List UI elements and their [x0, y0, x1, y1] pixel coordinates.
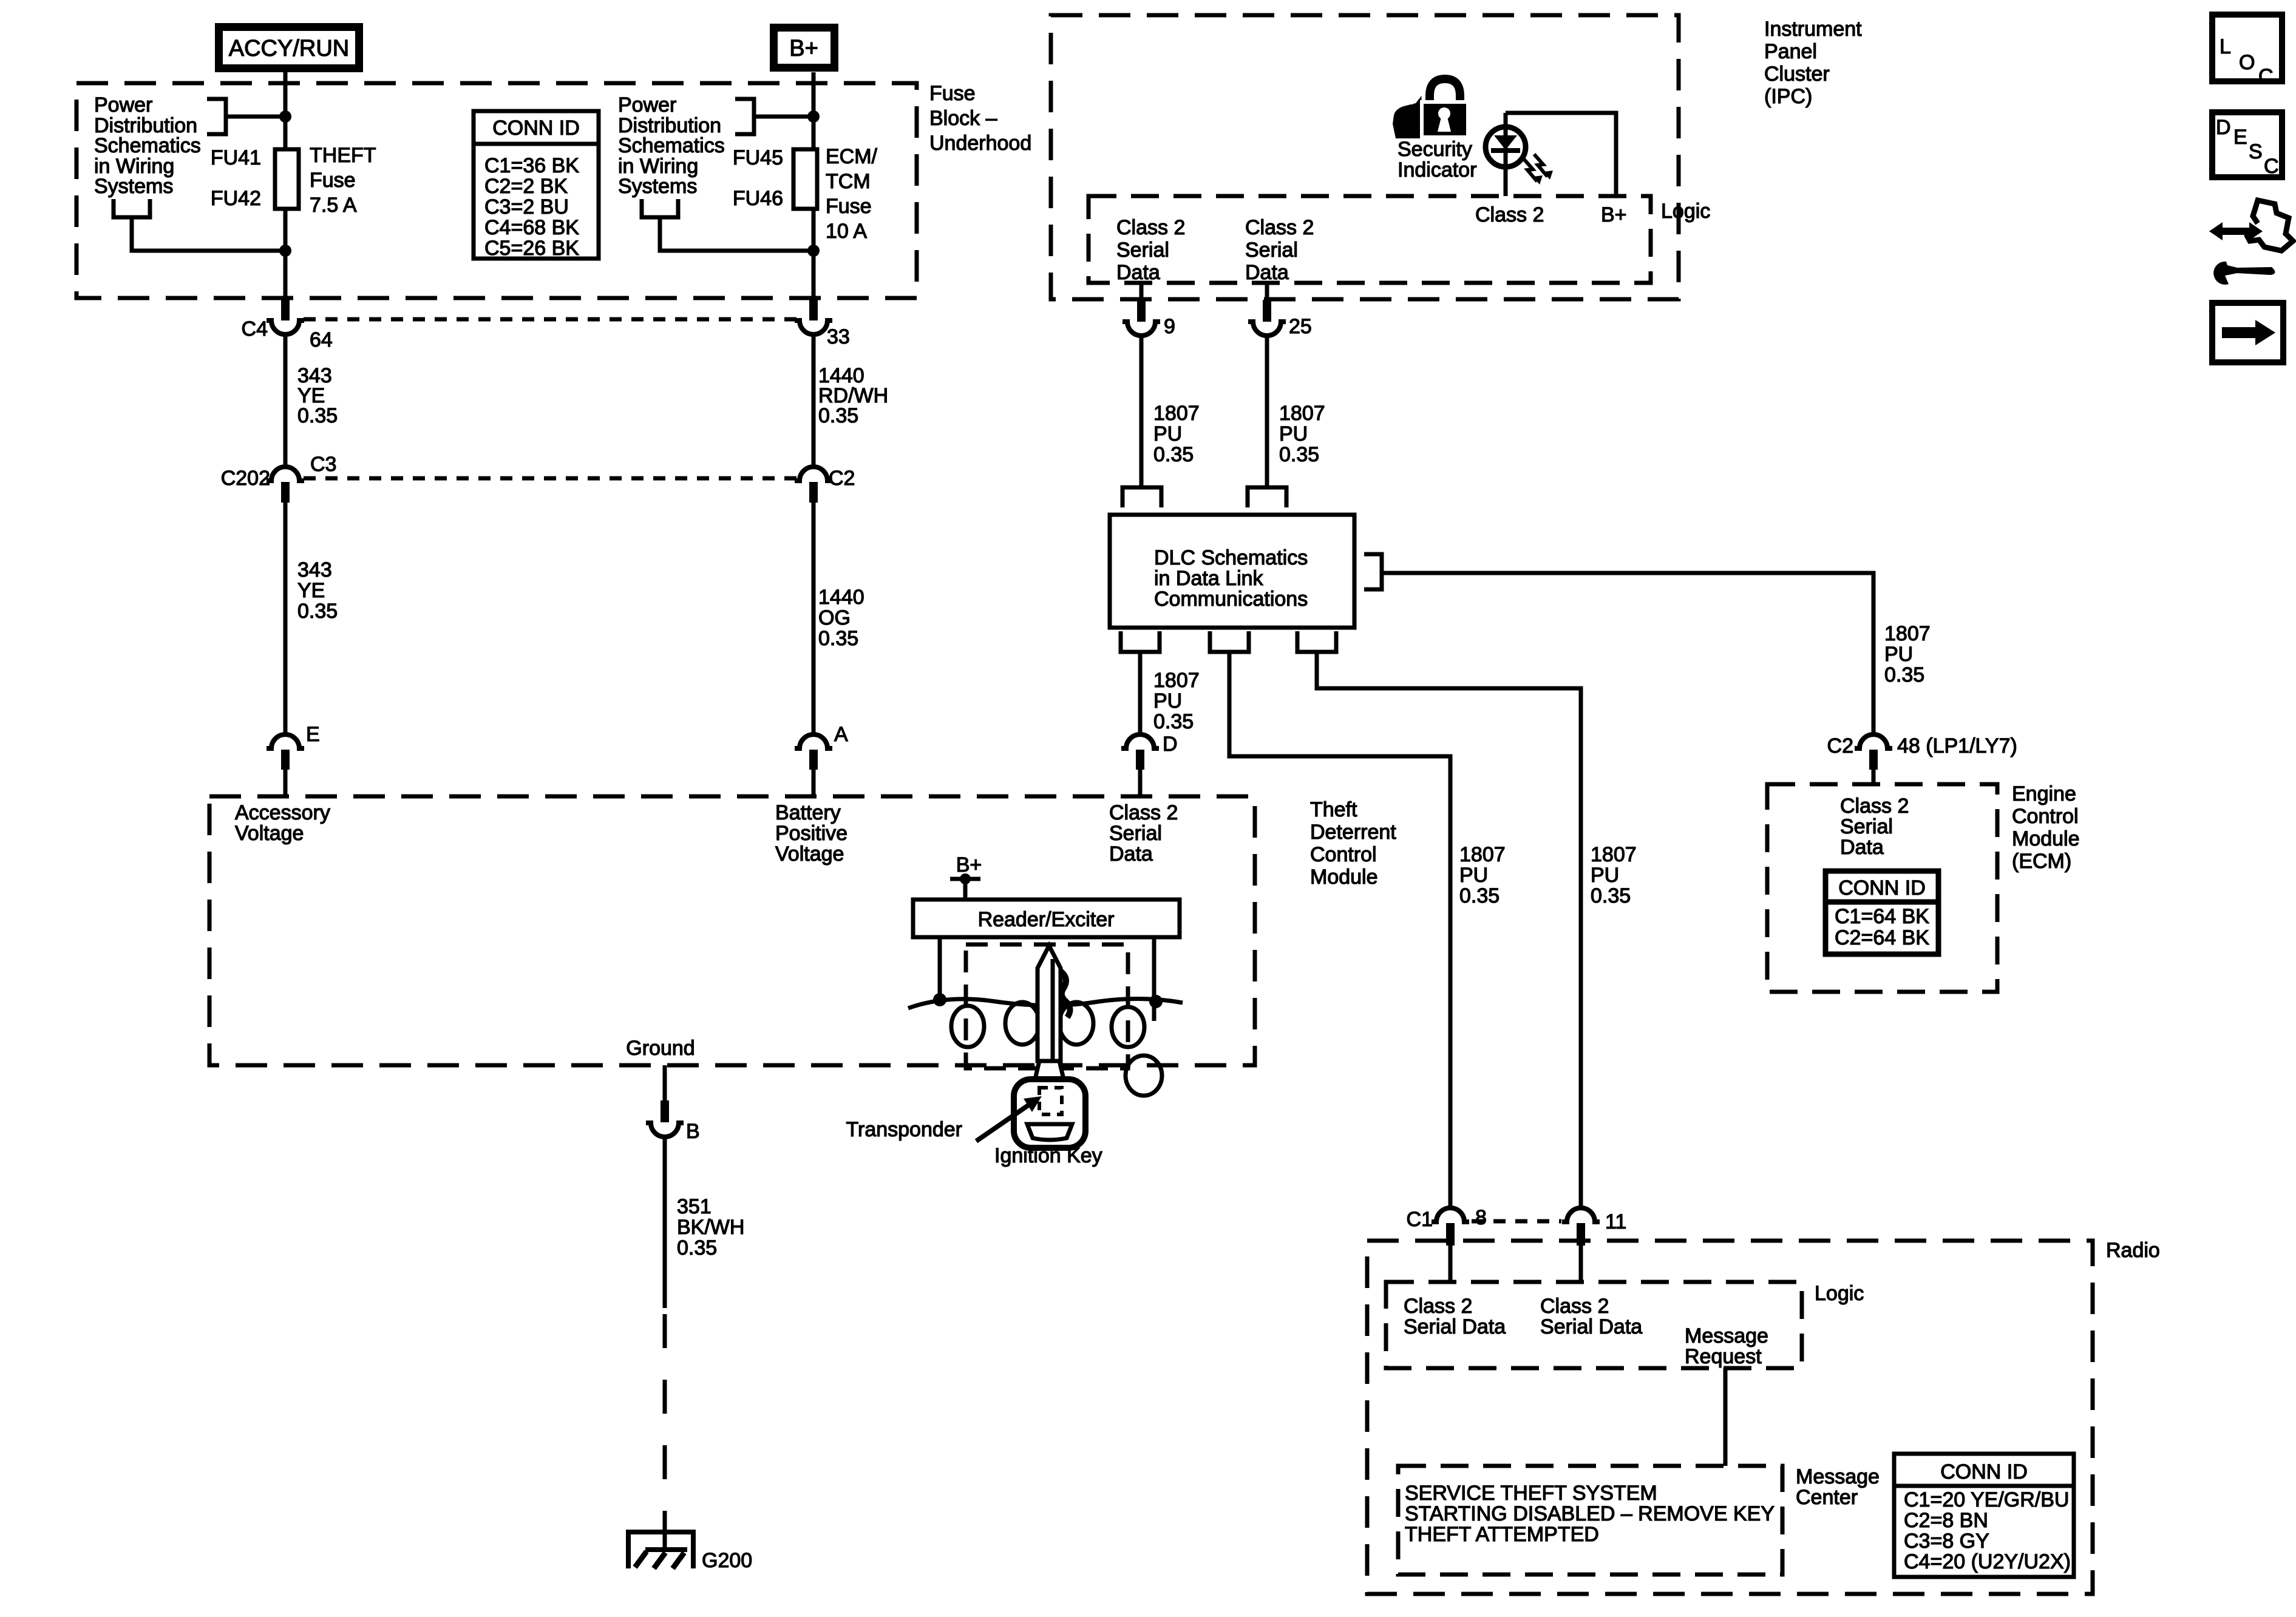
B+ terminal inside TDCM [950, 853, 982, 900]
svg-text:C: C [2264, 155, 2279, 178]
svg-text:Class 2: Class 2 [1475, 203, 1544, 226]
Reader/Exciter box [913, 900, 1180, 937]
connector pin 9 of IPC [1123, 283, 1175, 338]
wire 1807 PU (9 to DLC) [1140, 336, 1144, 486]
svg-text:Message: Message [1796, 1465, 1880, 1488]
B+ power feed box [770, 24, 838, 72]
svg-text:48 (LP1/LY7): 48 (LP1/LY7) [1897, 734, 2017, 758]
svg-text:Ignition Key: Ignition Key [994, 1144, 1102, 1167]
svg-text:1807: 1807 [1279, 402, 1325, 425]
svg-text:8: 8 [1475, 1206, 1487, 1229]
svg-text:0.35: 0.35 [297, 600, 338, 623]
ignition key blade [1038, 946, 1070, 1061]
CONN ID table (fuse block) [474, 111, 599, 260]
svg-text:PU: PU [1591, 864, 1619, 887]
margin icon forward arrow box [2212, 303, 2283, 362]
svg-text:C4=20 (U2Y/U2X): C4=20 (U2Y/U2X) [1904, 1550, 2071, 1573]
svg-text:CONN ID: CONN ID [1940, 1460, 2028, 1483]
svg-text:7.5 A: 7.5 A [310, 194, 357, 217]
svg-text:0.35: 0.35 [818, 404, 858, 427]
fuse FU41/FU42 THEFT 7.5A [275, 149, 299, 209]
svg-text:Control: Control [2012, 805, 2079, 828]
ignition key head [1014, 1079, 1085, 1148]
svg-text:351: 351 [677, 1195, 712, 1218]
svg-text:Center: Center [1796, 1486, 1858, 1509]
label Power Distribution Schematics in Wiring Systems (right) [618, 93, 725, 198]
svg-text:0.35: 0.35 [1153, 443, 1194, 466]
DLC top pin cavity (25) [1248, 487, 1286, 507]
svg-text:0.35: 0.35 [818, 627, 858, 650]
svg-text:OG: OG [818, 606, 851, 629]
wire 343 YE to E [284, 503, 288, 734]
wire 1440 OG to A [812, 503, 816, 734]
svg-text:(IPC): (IPC) [1764, 85, 1812, 108]
svg-text:1807: 1807 [1884, 622, 1931, 645]
svg-text:Class 2: Class 2 [1540, 1295, 1609, 1318]
svg-text:Positive: Positive [775, 822, 847, 845]
svg-text:C2=2 BK: C2=2 BK [484, 175, 568, 198]
svg-text:C1=20 YE/GR/BU: C1=20 YE/GR/BU [1904, 1488, 2069, 1511]
svg-text:Logic: Logic [1815, 1282, 1864, 1305]
wire 343 YE to C202 [284, 334, 288, 467]
svg-text:Reader/Exciter: Reader/Exciter [978, 908, 1115, 931]
node junction dot B+ top [807, 110, 820, 123]
node junction dot ACCY bottom [279, 245, 291, 257]
wire ground dashed run [663, 1314, 667, 1513]
svg-text:1807: 1807 [1459, 843, 1506, 866]
ground G200 [628, 1532, 752, 1572]
svg-text:Serial: Serial [1245, 239, 1298, 262]
svg-text:C3=8 GY: C3=8 GY [1904, 1530, 1989, 1553]
svg-text:CONN ID: CONN ID [1838, 876, 1926, 900]
svg-text:1807: 1807 [1153, 669, 1200, 692]
label Class 2 Serial Data (ECM) [1840, 795, 1909, 859]
connector B terminal [646, 1100, 700, 1143]
wire fuse to 33 [812, 209, 816, 299]
svg-text:Logic: Logic [1661, 200, 1710, 223]
svg-text:FU41: FU41 [211, 146, 261, 169]
CONN ID table (ECM) [1826, 871, 1938, 954]
svg-text:Accessory: Accessory [235, 801, 330, 824]
fuse FU45/FU46 ECM/TCM 10A [793, 149, 817, 209]
svg-text:Serial: Serial [1116, 239, 1169, 262]
svg-text:0.35: 0.35 [1459, 884, 1500, 907]
svg-text:0.35: 0.35 [1279, 443, 1319, 466]
DLC bottom pin cavity 2 [1210, 631, 1249, 652]
svg-text:B+: B+ [1601, 203, 1627, 226]
svg-text:25: 25 [1289, 315, 1312, 338]
svg-text:C5=26 BK: C5=26 BK [484, 237, 579, 260]
DLC top pin cavity (9) [1123, 487, 1161, 507]
connector C2 pin 48 at ECM [1827, 734, 2017, 784]
label Accessory Voltage [235, 801, 330, 845]
svg-text:Serial: Serial [1109, 822, 1162, 845]
svg-text:0.35: 0.35 [1591, 884, 1631, 907]
bracket under Systems (left) [114, 199, 283, 251]
label Engine Control Module (ECM) [2012, 782, 2080, 873]
svg-text:1807: 1807 [1591, 843, 1637, 866]
DLC bottom pin cavity 1 [1121, 631, 1160, 652]
label Class 2 Serial Data (IPC pin 9) [1116, 216, 1185, 284]
svg-text:C3=2 BU: C3=2 BU [484, 195, 569, 219]
connector boundary dotted 8 to 11 [1472, 1219, 1561, 1224]
label Fuse Block - Underhood [929, 82, 1031, 155]
key head slot [1027, 1124, 1072, 1140]
svg-text:9: 9 [1164, 315, 1175, 338]
Message Center dashed box [1398, 1466, 1782, 1575]
svg-text:Power: Power [94, 93, 152, 117]
svg-text:Schematics: Schematics [618, 134, 725, 157]
wire 1807 PU (25 to DLC) [1265, 336, 1269, 486]
svg-text:(ECM): (ECM) [2012, 850, 2071, 873]
svg-text:Serial Data: Serial Data [1540, 1315, 1642, 1338]
label Instrument Panel Cluster (IPC) [1764, 18, 1862, 108]
svg-text:Module: Module [2012, 827, 2080, 850]
svg-text:ACCY/RUN: ACCY/RUN [229, 36, 349, 61]
wire DLC to ECM (1807 PU) [1382, 573, 1873, 734]
svg-text:Class 2: Class 2 [1116, 216, 1185, 239]
svg-text:Security: Security [1398, 138, 1472, 161]
ignition key collar [1034, 1061, 1064, 1082]
coil turn 3 [1059, 1002, 1093, 1045]
connector C4 in-line dotted boundary to 33 [304, 317, 796, 322]
svg-text:THEFT: THEFT [310, 144, 376, 167]
svg-text:Ground: Ground [626, 1037, 695, 1060]
wire B+ down [812, 72, 816, 149]
connector pin 11 at radio [1562, 1208, 1626, 1282]
label Power Distribution Schematics in Wiring Systems (left) [94, 93, 201, 198]
coil turn 1 [951, 1006, 984, 1047]
svg-text:Indicator: Indicator [1398, 158, 1476, 181]
svg-text:Schematics: Schematics [94, 134, 201, 157]
svg-text:G200: G200 [702, 1549, 752, 1572]
CONN ID table (radio) [1894, 1454, 2074, 1577]
margin icon DESC box [2212, 112, 2282, 178]
svg-text:Serial Data: Serial Data [1404, 1315, 1506, 1338]
DLC right pin cavity [1364, 554, 1382, 589]
wire fuse to C4 [284, 209, 288, 251]
svg-text:PU: PU [1153, 690, 1182, 713]
svg-text:Data: Data [1840, 836, 1884, 859]
svg-text:C3: C3 [310, 453, 336, 476]
connector A at TDCM [795, 723, 848, 796]
node junction dot B+ bottom [807, 245, 820, 257]
svg-text:E: E [306, 723, 320, 746]
svg-text:PU: PU [1884, 643, 1913, 666]
svg-text:FU42: FU42 [211, 187, 261, 210]
coil turn 4 [1112, 1007, 1144, 1047]
Instrument Panel Cluster dashed box [1051, 15, 1679, 299]
svg-text:Request: Request [1685, 1345, 1762, 1368]
label Message Request [1685, 1324, 1768, 1368]
label SERVICE THEFT SYSTEM messages [1405, 1482, 1775, 1546]
margin icon LOC box [2212, 15, 2282, 88]
svg-text:11: 11 [1605, 1210, 1626, 1233]
IPC Logic dashed box [1089, 196, 1651, 283]
security indicator icon (car with padlock) [1393, 79, 1468, 138]
connector 33 terminal pin [795, 297, 850, 348]
svg-text:S: S [2249, 140, 2263, 163]
svg-text:Theft: Theft [1310, 798, 1357, 821]
svg-text:E: E [2233, 126, 2247, 149]
svg-text:C: C [2258, 65, 2274, 88]
svg-text:Class 2: Class 2 [1404, 1295, 1472, 1318]
svg-text:Message: Message [1685, 1324, 1768, 1347]
coil turn 5 [1126, 1056, 1162, 1096]
svg-text:C4=68 BK: C4=68 BK [484, 216, 579, 239]
node junction dot ACCY top [279, 110, 291, 123]
svg-text:Power: Power [618, 93, 676, 117]
wire 351 BK/WH [663, 1137, 667, 1308]
svg-text:in Data Link: in Data Link [1154, 567, 1264, 590]
DLC Schematics box [1110, 515, 1354, 628]
svg-text:FU45: FU45 [733, 146, 783, 169]
connector C4 terminal pin 64 [242, 297, 333, 351]
svg-text:Module: Module [1310, 866, 1378, 889]
node junction dot right coil [1149, 995, 1163, 1008]
svg-text:0.35: 0.35 [297, 404, 338, 427]
svg-text:64: 64 [310, 328, 333, 351]
svg-text:B+: B+ [789, 36, 818, 61]
Radio Logic dashed box [1386, 1282, 1802, 1368]
connector C1 pin 8 at radio [1407, 1206, 1487, 1282]
label Class 2 Serial Data (radio pin 8) [1404, 1295, 1506, 1338]
svg-text:0.35: 0.35 [1153, 710, 1194, 733]
svg-text:PU: PU [1279, 422, 1308, 446]
svg-text:STARTING DISABLED – REMOVE KEY: STARTING DISABLED – REMOVE KEY [1405, 1502, 1775, 1525]
svg-text:0.35: 0.35 [1884, 663, 1924, 686]
connector E at TDCM [267, 723, 320, 796]
svg-text:Battery: Battery [775, 801, 841, 824]
svg-text:B: B [686, 1120, 700, 1143]
svg-text:Systems: Systems [94, 175, 173, 198]
svg-text:Class 2: Class 2 [1109, 801, 1178, 824]
svg-text:Block –: Block – [929, 107, 997, 130]
svg-text:Deterrent: Deterrent [1310, 821, 1396, 844]
svg-text:C2=8 BN: C2=8 BN [1904, 1509, 1988, 1532]
svg-text:C2: C2 [1827, 734, 1853, 758]
coil turn 2 [1005, 1002, 1039, 1045]
svg-text:YE: YE [297, 579, 325, 602]
exciter coil dashed box [966, 944, 1128, 1068]
connector D at TDCM [1121, 733, 1178, 796]
wire ground from TDCM [663, 1065, 667, 1100]
Radio dashed box [1367, 1241, 2093, 1594]
svg-text:D: D [1163, 733, 1178, 756]
label Battery Positive Voltage [775, 801, 847, 866]
Theft Deterrent Control Module dashed box [209, 796, 1255, 1065]
DLC bottom pin cavity 3 [1297, 631, 1336, 652]
svg-text:D: D [2216, 116, 2231, 139]
svg-text:Fuse: Fuse [826, 195, 872, 218]
transponder dashed square [1039, 1088, 1062, 1114]
wire message request to message center [1724, 1368, 1728, 1466]
connector pin 25 of IPC [1248, 283, 1312, 338]
svg-text:Voltage: Voltage [775, 842, 844, 866]
label Class 2 Serial Data (TDCM) [1109, 801, 1178, 866]
svg-text:C2: C2 [829, 467, 855, 490]
svg-text:C1=64 BK: C1=64 BK [1835, 905, 1929, 928]
svg-text:Class 2: Class 2 [1245, 216, 1314, 239]
svg-text:Fuse: Fuse [929, 82, 976, 105]
label Class 2 Serial Data (radio pin 11) [1540, 1295, 1642, 1338]
margin icon jump/adjust glyph [2209, 200, 2293, 285]
wire DLC to radio pin 11 [1317, 652, 1581, 1208]
svg-text:Data: Data [1109, 842, 1153, 866]
svg-text:Cluster: Cluster [1764, 63, 1830, 86]
svg-text:Data: Data [1116, 261, 1160, 284]
wire ACCY/RUN down [284, 72, 288, 149]
svg-text:BK/WH: BK/WH [677, 1216, 744, 1239]
connector C202 pin C2 [795, 467, 855, 503]
svg-text:Communications: Communications [1154, 588, 1308, 611]
svg-text:343: 343 [297, 558, 332, 581]
svg-text:SERVICE THEFT SYSTEM: SERVICE THEFT SYSTEM [1405, 1482, 1657, 1505]
svg-text:0.35: 0.35 [677, 1236, 717, 1259]
svg-text:Engine: Engine [2012, 782, 2076, 805]
svg-text:Data: Data [1245, 261, 1289, 284]
svg-text:CONN ID: CONN ID [492, 117, 580, 140]
label Theft Deterrent Control Module [1310, 798, 1396, 889]
svg-text:B+: B+ [956, 853, 982, 876]
svg-text:Transponder: Transponder [846, 1118, 962, 1141]
svg-text:Fuse: Fuse [310, 169, 356, 192]
connector C202 pin C3 [221, 453, 337, 503]
svg-text:O: O [2239, 51, 2255, 74]
ACCY/RUN power feed box [215, 23, 363, 72]
svg-text:THEFT ATTEMPTED: THEFT ATTEMPTED [1405, 1523, 1599, 1546]
svg-text:C1=36 BK: C1=36 BK [484, 154, 579, 177]
bracket to ACCY wire [207, 99, 283, 134]
wire LED to B+ (IPC) [1506, 113, 1616, 196]
bracket under Systems (right) [642, 199, 811, 251]
svg-text:Serial: Serial [1840, 815, 1893, 838]
bracket to B+ wire [735, 99, 811, 134]
Engine Control Module dashed box [1767, 784, 1997, 992]
Fuse Block - Underhood dashed box [76, 83, 917, 298]
svg-text:ECM/: ECM/ [826, 145, 878, 168]
wire 1440 RD/WH to C2 [812, 334, 816, 467]
wire DLC to TDCM (1807 PU, pin D) [1138, 652, 1143, 734]
svg-text:C2=64 BK: C2=64 BK [1835, 926, 1929, 949]
connector C202 dotted boundary C3 to C2 [304, 476, 796, 481]
svg-text:A: A [834, 723, 848, 746]
svg-text:1440: 1440 [818, 586, 864, 609]
svg-text:DLC Schematics: DLC Schematics [1154, 546, 1308, 569]
svg-text:C202: C202 [221, 467, 270, 490]
svg-text:Control: Control [1310, 843, 1377, 866]
svg-text:L: L [2220, 35, 2231, 58]
node junction dot left coil [933, 993, 946, 1006]
svg-text:PU: PU [1459, 864, 1488, 887]
svg-text:1807: 1807 [1153, 402, 1200, 425]
label Message Center [1796, 1465, 1880, 1509]
coil wavy wire [908, 998, 1183, 1008]
svg-text:Underhood: Underhood [929, 132, 1031, 155]
label Security Indicator [1398, 138, 1476, 181]
svg-text:Radio: Radio [2106, 1239, 2160, 1262]
LED security lamp [1486, 113, 1553, 196]
svg-text:FU46: FU46 [733, 187, 783, 210]
transponder pointer arrow [976, 1096, 1042, 1141]
svg-text:C4: C4 [242, 317, 268, 341]
svg-text:PU: PU [1153, 422, 1182, 446]
svg-text:10 A: 10 A [826, 220, 867, 243]
svg-text:Systems: Systems [618, 175, 697, 198]
svg-text:33: 33 [827, 325, 850, 348]
svg-text:Voltage: Voltage [235, 822, 304, 845]
svg-text:C1: C1 [1407, 1208, 1433, 1231]
wire reader left leg [938, 937, 942, 1000]
svg-text:Class 2: Class 2 [1840, 795, 1909, 818]
wire reader right leg [1152, 937, 1156, 1021]
label Class 2 Serial Data (IPC pin 25) [1245, 216, 1314, 284]
wire DLC to radio pin 8 [1229, 652, 1450, 1208]
svg-text:Instrument: Instrument [1764, 18, 1862, 41]
svg-text:TCM: TCM [826, 170, 871, 193]
svg-text:Panel: Panel [1764, 40, 1817, 63]
